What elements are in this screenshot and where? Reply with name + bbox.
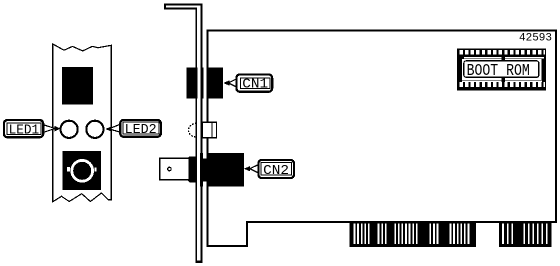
svg-text:42593: 42593 xyxy=(519,32,552,44)
svg-text:LED1: LED1 xyxy=(9,122,40,138)
RJ45 port (front view) xyxy=(62,67,93,105)
bracket bottom cap xyxy=(195,261,202,263)
bracket outer rail xyxy=(200,4,202,263)
svg-text:CN2: CN2 xyxy=(263,163,289,179)
callout label LED2 xyxy=(106,120,161,138)
mounting bracket xyxy=(164,4,203,263)
connector CN1 (RJ45, side view on bracket) xyxy=(186,67,223,98)
LED holder on bracket xyxy=(188,122,216,138)
svg-text:BOOT ROM: BOOT ROM xyxy=(467,61,530,80)
LED2 lamp xyxy=(86,121,103,138)
bracket inner rail xyxy=(195,8,197,263)
callout label CN2 xyxy=(244,160,294,179)
svg-text:CN1: CN1 xyxy=(242,77,268,93)
faceplate detail strip xyxy=(53,44,112,202)
bracket top hook xyxy=(164,3,203,5)
edge connector fingers, right block xyxy=(499,223,551,247)
svg-text:LED2: LED2 xyxy=(125,122,157,138)
card outline (PCB) xyxy=(207,30,556,246)
edge connector fingers, left block xyxy=(350,223,477,247)
boot rom chip U1 xyxy=(457,49,546,91)
callout label CN1 xyxy=(223,74,272,92)
BNC connector (front view) xyxy=(63,151,102,190)
connector CN2 (BNC, side view on bracket) xyxy=(160,153,244,187)
LED1 lamp xyxy=(61,121,78,138)
callout label LED1 xyxy=(4,120,60,138)
